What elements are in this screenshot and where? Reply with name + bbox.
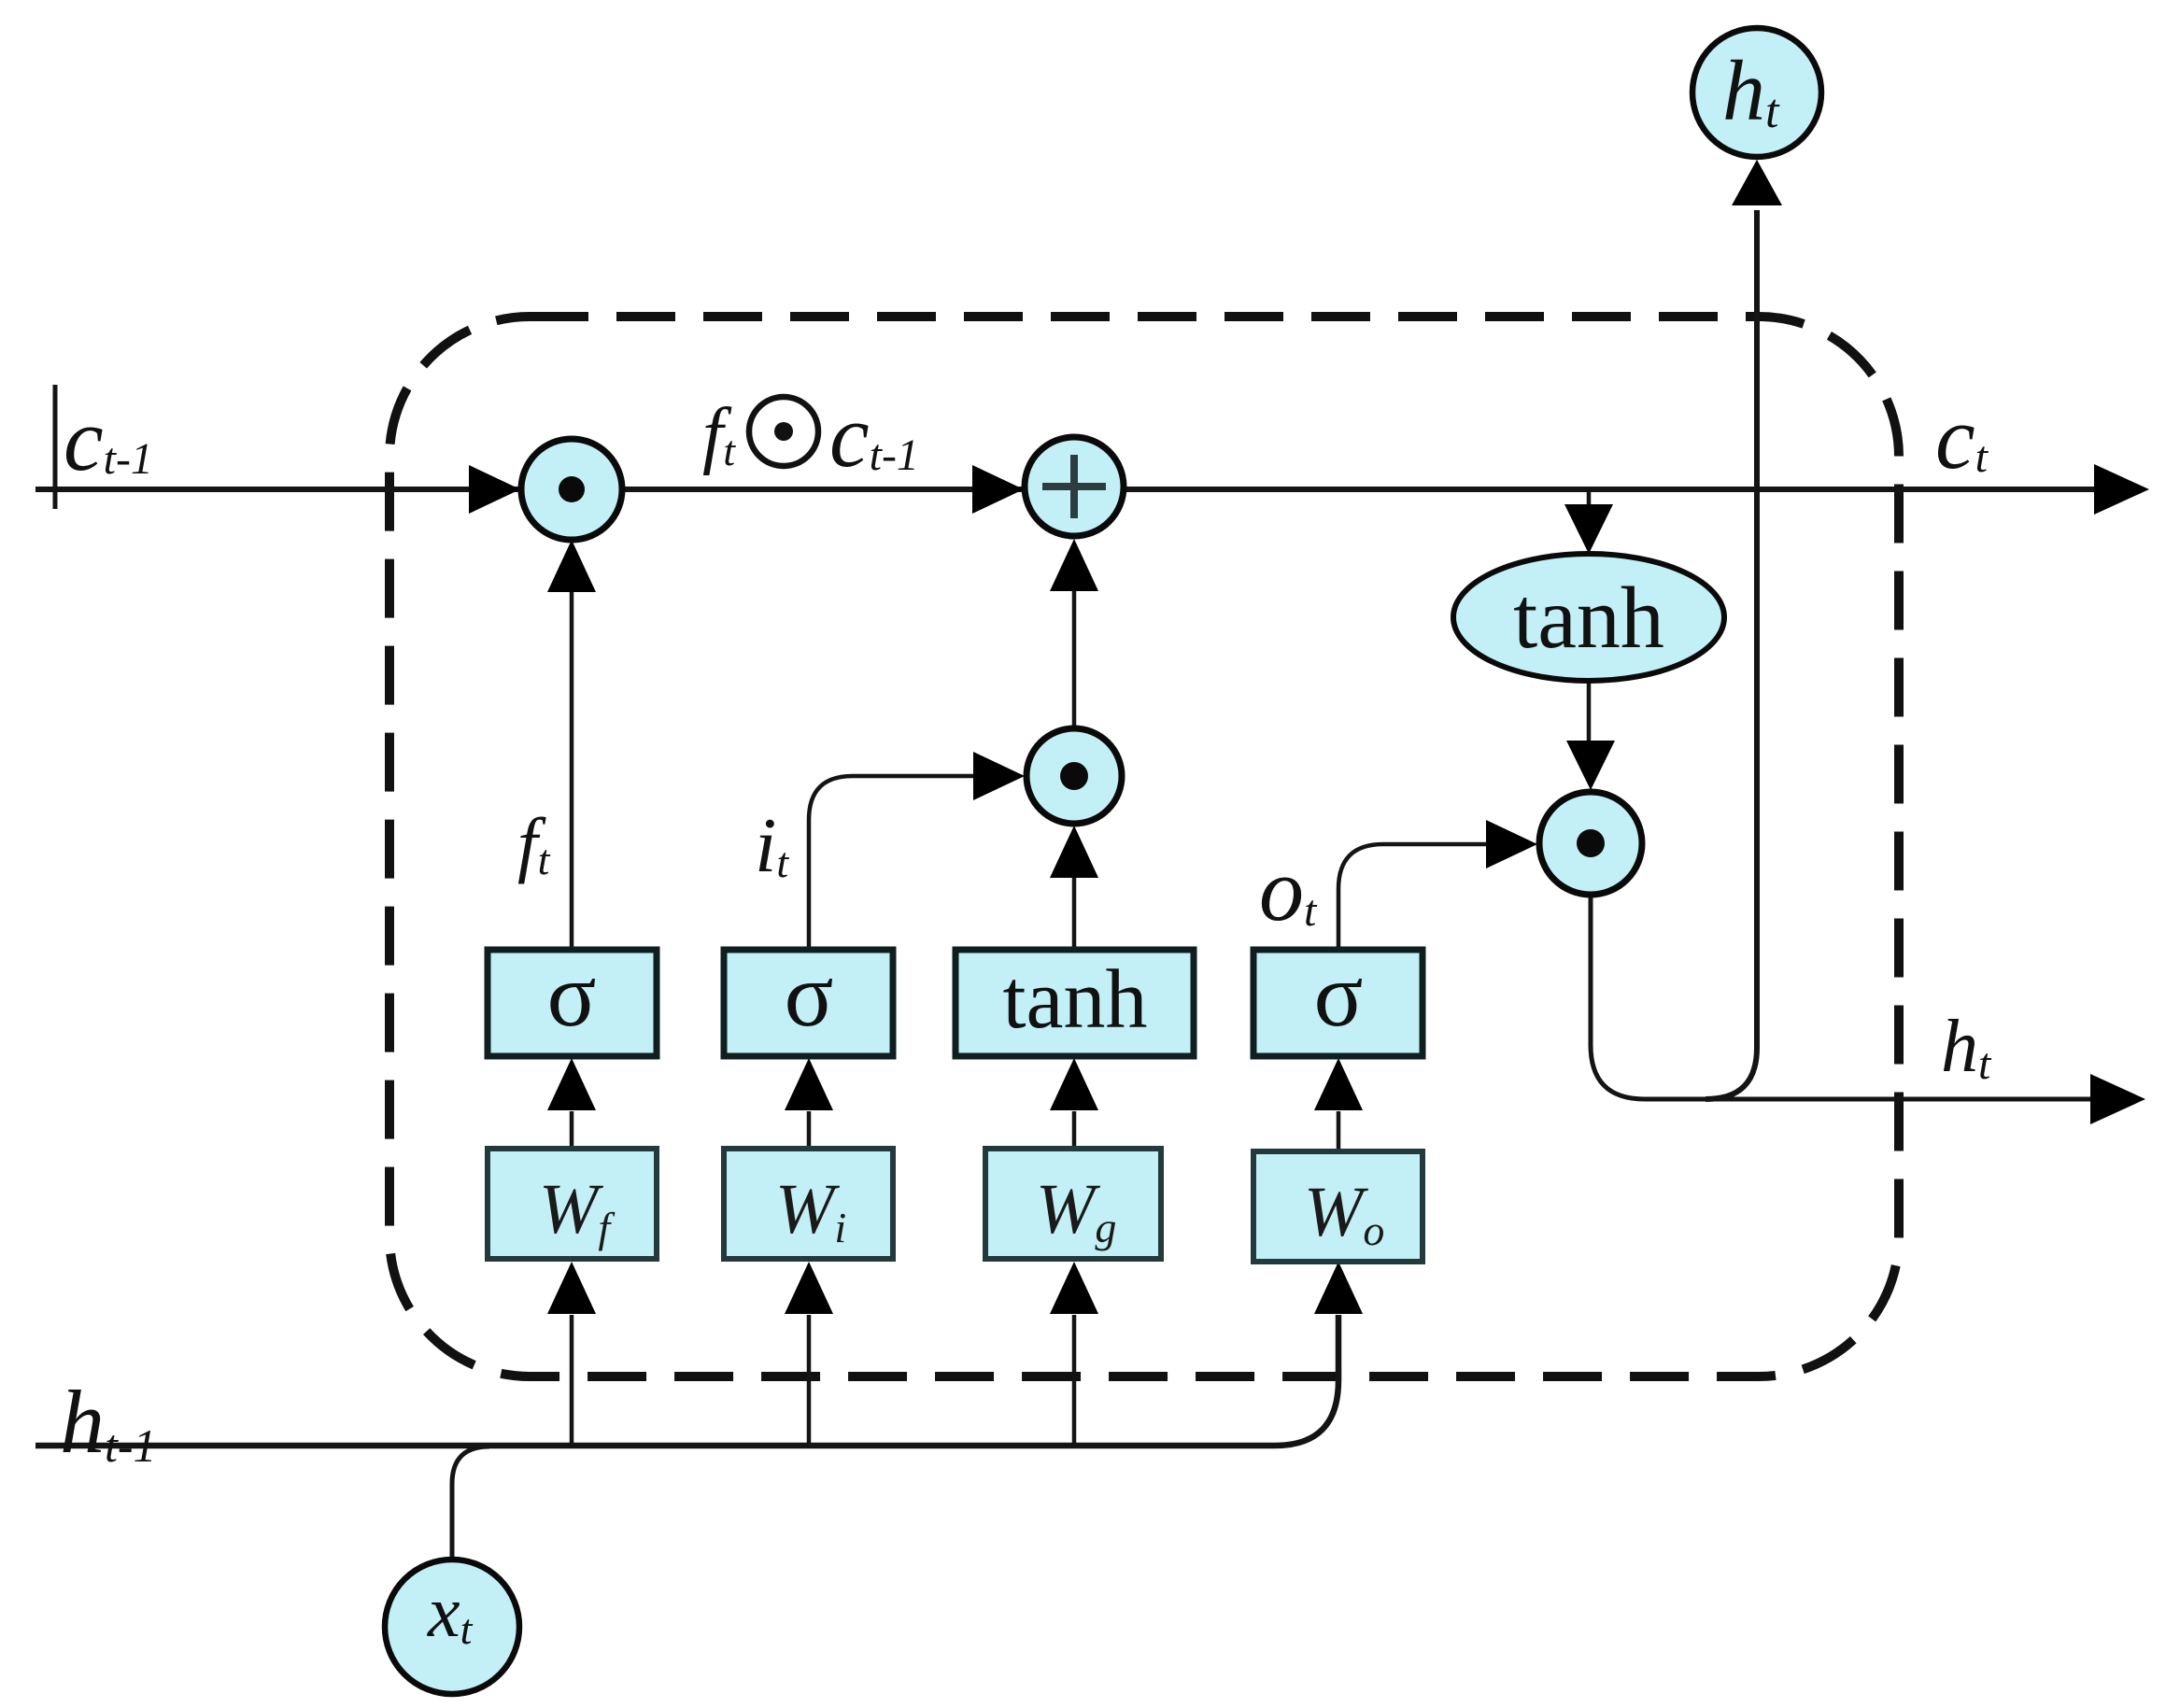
left axis tick [53, 385, 58, 509]
svg-text:tanh: tanh [1513, 570, 1664, 667]
cell-state line c_{t-1} to c_t [35, 487, 2098, 492]
svg-text:σ: σ [785, 945, 834, 1046]
tanh gate box (candidate) [956, 950, 1194, 1056]
W_o to sigma3 wire [1337, 1111, 1341, 1151]
multiply node 1 (forget) [521, 439, 622, 540]
multiply node 2 (input) [1026, 728, 1122, 824]
f_t gate wire: sigma1 up to multiply node 1 [570, 588, 574, 950]
candidate wire: tanh box up into multiply node 2 [1072, 873, 1077, 950]
x_t node (bottom) [385, 1560, 519, 1694]
svg-text:tanh: tanh [1003, 953, 1148, 1046]
tanh ellipse (cell activation) [1453, 554, 1724, 681]
h_t output wire: multiply node 3 down, around and right [1591, 895, 2094, 1099]
LSTM cell dashed boundary [389, 317, 1899, 1376]
weight box W_f [488, 1149, 657, 1259]
sigma gate box 1 (forget) [488, 950, 657, 1056]
W_i to sigma2 wire [807, 1111, 812, 1149]
arrowhead into add node [972, 465, 1024, 514]
h_{t-1} input line [35, 1315, 1338, 1446]
W_g to tanh box wire [1072, 1111, 1077, 1149]
W_f to sigma1 wire [570, 1111, 574, 1149]
svg-text:σ: σ [1314, 945, 1364, 1046]
weight box W_o [1253, 1151, 1423, 1262]
arrowhead into W_o [1314, 1262, 1363, 1314]
sigma gate box 2 (input) [724, 950, 893, 1056]
h_t riser wire up to h_t node [1706, 210, 1757, 1099]
W_g tap wire [1072, 1315, 1077, 1446]
h_t node (top) [1692, 28, 1821, 157]
W_i tap wire [807, 1315, 812, 1446]
o_t gate wire: sigma3 up and right into multiply node 3 [1338, 844, 1486, 950]
i_t gate wire: sigma2 up and right into multiply node 2 [809, 776, 973, 950]
W_f tap wire [570, 1315, 574, 1446]
x_t input wire [452, 1447, 489, 1560]
arrowhead into multiply node 1 [469, 465, 520, 514]
sigma gate box 3 (output) [1253, 950, 1423, 1056]
multiply node 2 output up into add node [1072, 590, 1077, 730]
weight box W_g [985, 1149, 1161, 1259]
wire: tanh ellipse down into multiply node 3 [1587, 681, 1592, 745]
c_t output arrowhead [2094, 464, 2149, 515]
wire: cell line down into tanh ellipse [1587, 492, 1592, 509]
add node [1025, 437, 1124, 536]
multiply node 3 (output) [1539, 792, 1642, 895]
weight box W_i [724, 1149, 893, 1259]
svg-text:σ: σ [547, 945, 597, 1046]
